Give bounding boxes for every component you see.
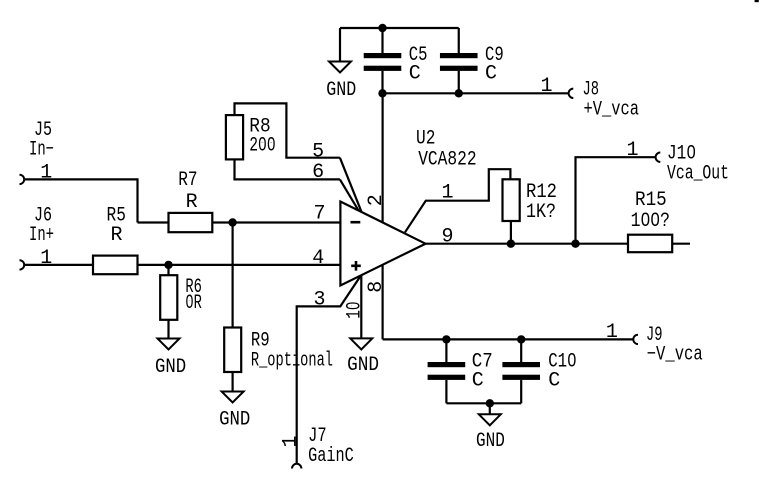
svg-text:In−: In− [29,139,54,162]
svg-text:1: 1 [627,139,639,162]
svg-text:C: C [548,369,560,392]
svg-text:GND: GND [347,354,379,377]
svg-text:GND: GND [476,430,505,453]
svg-text:1K?: 1K? [526,201,556,224]
svg-text:1: 1 [280,435,303,447]
svg-text:Vca_Out: Vca_Out [667,162,729,185]
svg-text:9: 9 [442,226,454,249]
svg-text:10: 10 [344,302,367,319]
svg-text:R: R [111,224,123,247]
svg-text:7: 7 [314,203,326,226]
svg-text:VCA822: VCA822 [418,148,476,171]
svg-text:1: 1 [442,182,454,205]
svg-text:+V_vca: +V_vca [584,98,640,121]
svg-text:100?: 100? [631,210,670,233]
svg-text:0R: 0R [185,292,202,315]
svg-text:GND: GND [219,408,250,431]
svg-text:In+: In+ [29,224,54,247]
svg-text:GND: GND [155,356,186,379]
svg-text:R7: R7 [178,169,197,192]
svg-text:3: 3 [314,288,326,311]
svg-text:GND: GND [326,79,356,102]
svg-text:1: 1 [606,321,618,344]
svg-text:R15: R15 [635,189,667,212]
svg-text:5: 5 [312,140,324,163]
svg-text:2: 2 [365,194,388,206]
svg-text:4: 4 [312,247,324,270]
svg-text:R: R [186,191,198,214]
svg-text:C: C [485,63,497,86]
svg-text:6: 6 [312,161,324,184]
svg-text:1: 1 [40,247,52,270]
svg-text:U2: U2 [416,127,435,150]
svg-text:8: 8 [365,281,388,293]
svg-text:C: C [409,63,421,86]
svg-text:1: 1 [541,75,553,98]
svg-text:C: C [472,369,484,392]
svg-text:GainC: GainC [308,445,354,468]
svg-text:1: 1 [40,162,52,185]
svg-text:−V_vca: −V_vca [647,343,703,366]
svg-text:R_optional: R_optional [251,350,333,373]
